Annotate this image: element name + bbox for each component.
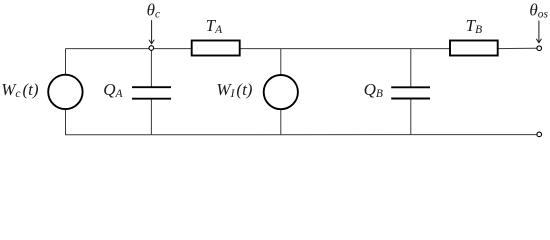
wire bottom rail <box>65 134 537 136</box>
arrow to terminal theta_os <box>537 21 542 43</box>
resistor T_B box <box>450 41 498 56</box>
svg-text:TB: TB <box>466 16 483 36</box>
source W_c circle <box>48 75 82 109</box>
node theta_c open circle <box>149 46 154 51</box>
wire branch QB lower <box>410 99 412 135</box>
wire branch QA upper <box>150 50 152 87</box>
arrow to node theta_c <box>149 21 154 44</box>
svg-text:θc: θc <box>147 0 160 20</box>
source W_I circle <box>264 75 298 109</box>
terminal open circle (bottom right) <box>537 132 542 137</box>
wire top-left segment <box>66 48 193 50</box>
wire top-right segment <box>498 47 537 49</box>
capacitor Q_A plates <box>132 86 171 88</box>
svg-text:QB: QB <box>364 80 383 100</box>
svg-text:TA: TA <box>206 16 223 36</box>
wire left rail <box>65 49 67 135</box>
svg-text:Wc(t): Wc(t) <box>1 80 39 100</box>
wire branch QA lower <box>150 99 152 135</box>
svg-text:θos: θos <box>529 0 548 20</box>
wire branch WI <box>280 49 282 135</box>
terminal theta_os open circle (top right) <box>537 46 542 51</box>
wire top-middle segment <box>240 48 451 50</box>
capacitor Q_B plates <box>391 86 430 88</box>
wire branch QB upper <box>410 49 412 88</box>
resistor T_A box <box>192 41 240 56</box>
svg-text:WI(t): WI(t) <box>216 80 252 100</box>
svg-text:QA: QA <box>103 80 123 100</box>
